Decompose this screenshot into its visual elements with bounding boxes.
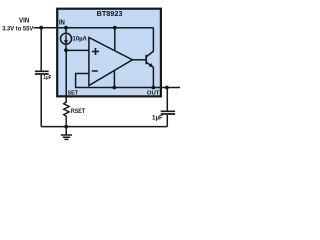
- node VIN junction: [39, 26, 43, 30]
- ground: [61, 127, 72, 140]
- node emitter OUT junction: [152, 86, 156, 90]
- transistor Q1 emitter: [147, 62, 154, 87]
- node supply junction: [113, 26, 117, 30]
- wire input cap upper: [40, 28, 42, 71]
- wire current source bottom: [65, 44, 67, 50]
- capacitor C1 1uF input: [35, 71, 49, 74]
- svg-text:VIN: VIN: [19, 18, 29, 25]
- svg-text:BT8923: BT8923: [97, 9, 123, 18]
- op-amp U1: [89, 38, 132, 86]
- svg-text:1µF: 1µF: [43, 75, 51, 81]
- wire VIN input rail: [34, 27, 154, 29]
- op-amp ground stub: [113, 70, 115, 87]
- op-amp plus sign: [92, 48, 99, 55]
- wire op-amp output to base: [132, 59, 145, 61]
- wire input cap lower: [40, 75, 42, 127]
- node ground junction: [64, 125, 68, 129]
- current source I1 10uA: [61, 33, 72, 44]
- IC body BT8923: [57, 9, 161, 97]
- wire SET pin vertical: [65, 50, 67, 102]
- wire inverting input and feedback to OUT: [76, 74, 180, 88]
- op-amp minus sign: [92, 70, 98, 72]
- svg-text:RSET: RSET: [71, 108, 85, 115]
- resistor RSET: [64, 102, 69, 127]
- node feedback junction: [113, 86, 117, 90]
- node OUT external junction: [165, 86, 169, 90]
- wire noninverting input: [66, 49, 89, 51]
- svg-text:3.3V to 55V: 3.3V to 55V: [2, 26, 33, 33]
- transistor Q1 base bar: [145, 55, 147, 64]
- transistor Q1 collector: [147, 28, 154, 57]
- capacitor C2 1uF output: [161, 111, 175, 114]
- svg-text:10µA: 10µA: [72, 35, 87, 42]
- wire output cap upper: [166, 88, 168, 111]
- svg-text:OUT: OUT: [147, 91, 160, 97]
- node IN rail junction: [64, 26, 68, 30]
- svg-text:SET: SET: [68, 91, 79, 97]
- wire output cap lower: [166, 115, 168, 127]
- wire ground rail bottom: [41, 126, 167, 128]
- svg-text:1µF: 1µF: [152, 115, 163, 122]
- op-amp supply stub: [114, 28, 116, 51]
- wire current source top: [65, 28, 67, 34]
- node SET junction: [64, 48, 68, 52]
- current source arrow: [65, 35, 67, 41]
- transistor Q1 emitter arrow: [149, 63, 154, 67]
- svg-text:IN: IN: [59, 19, 65, 26]
